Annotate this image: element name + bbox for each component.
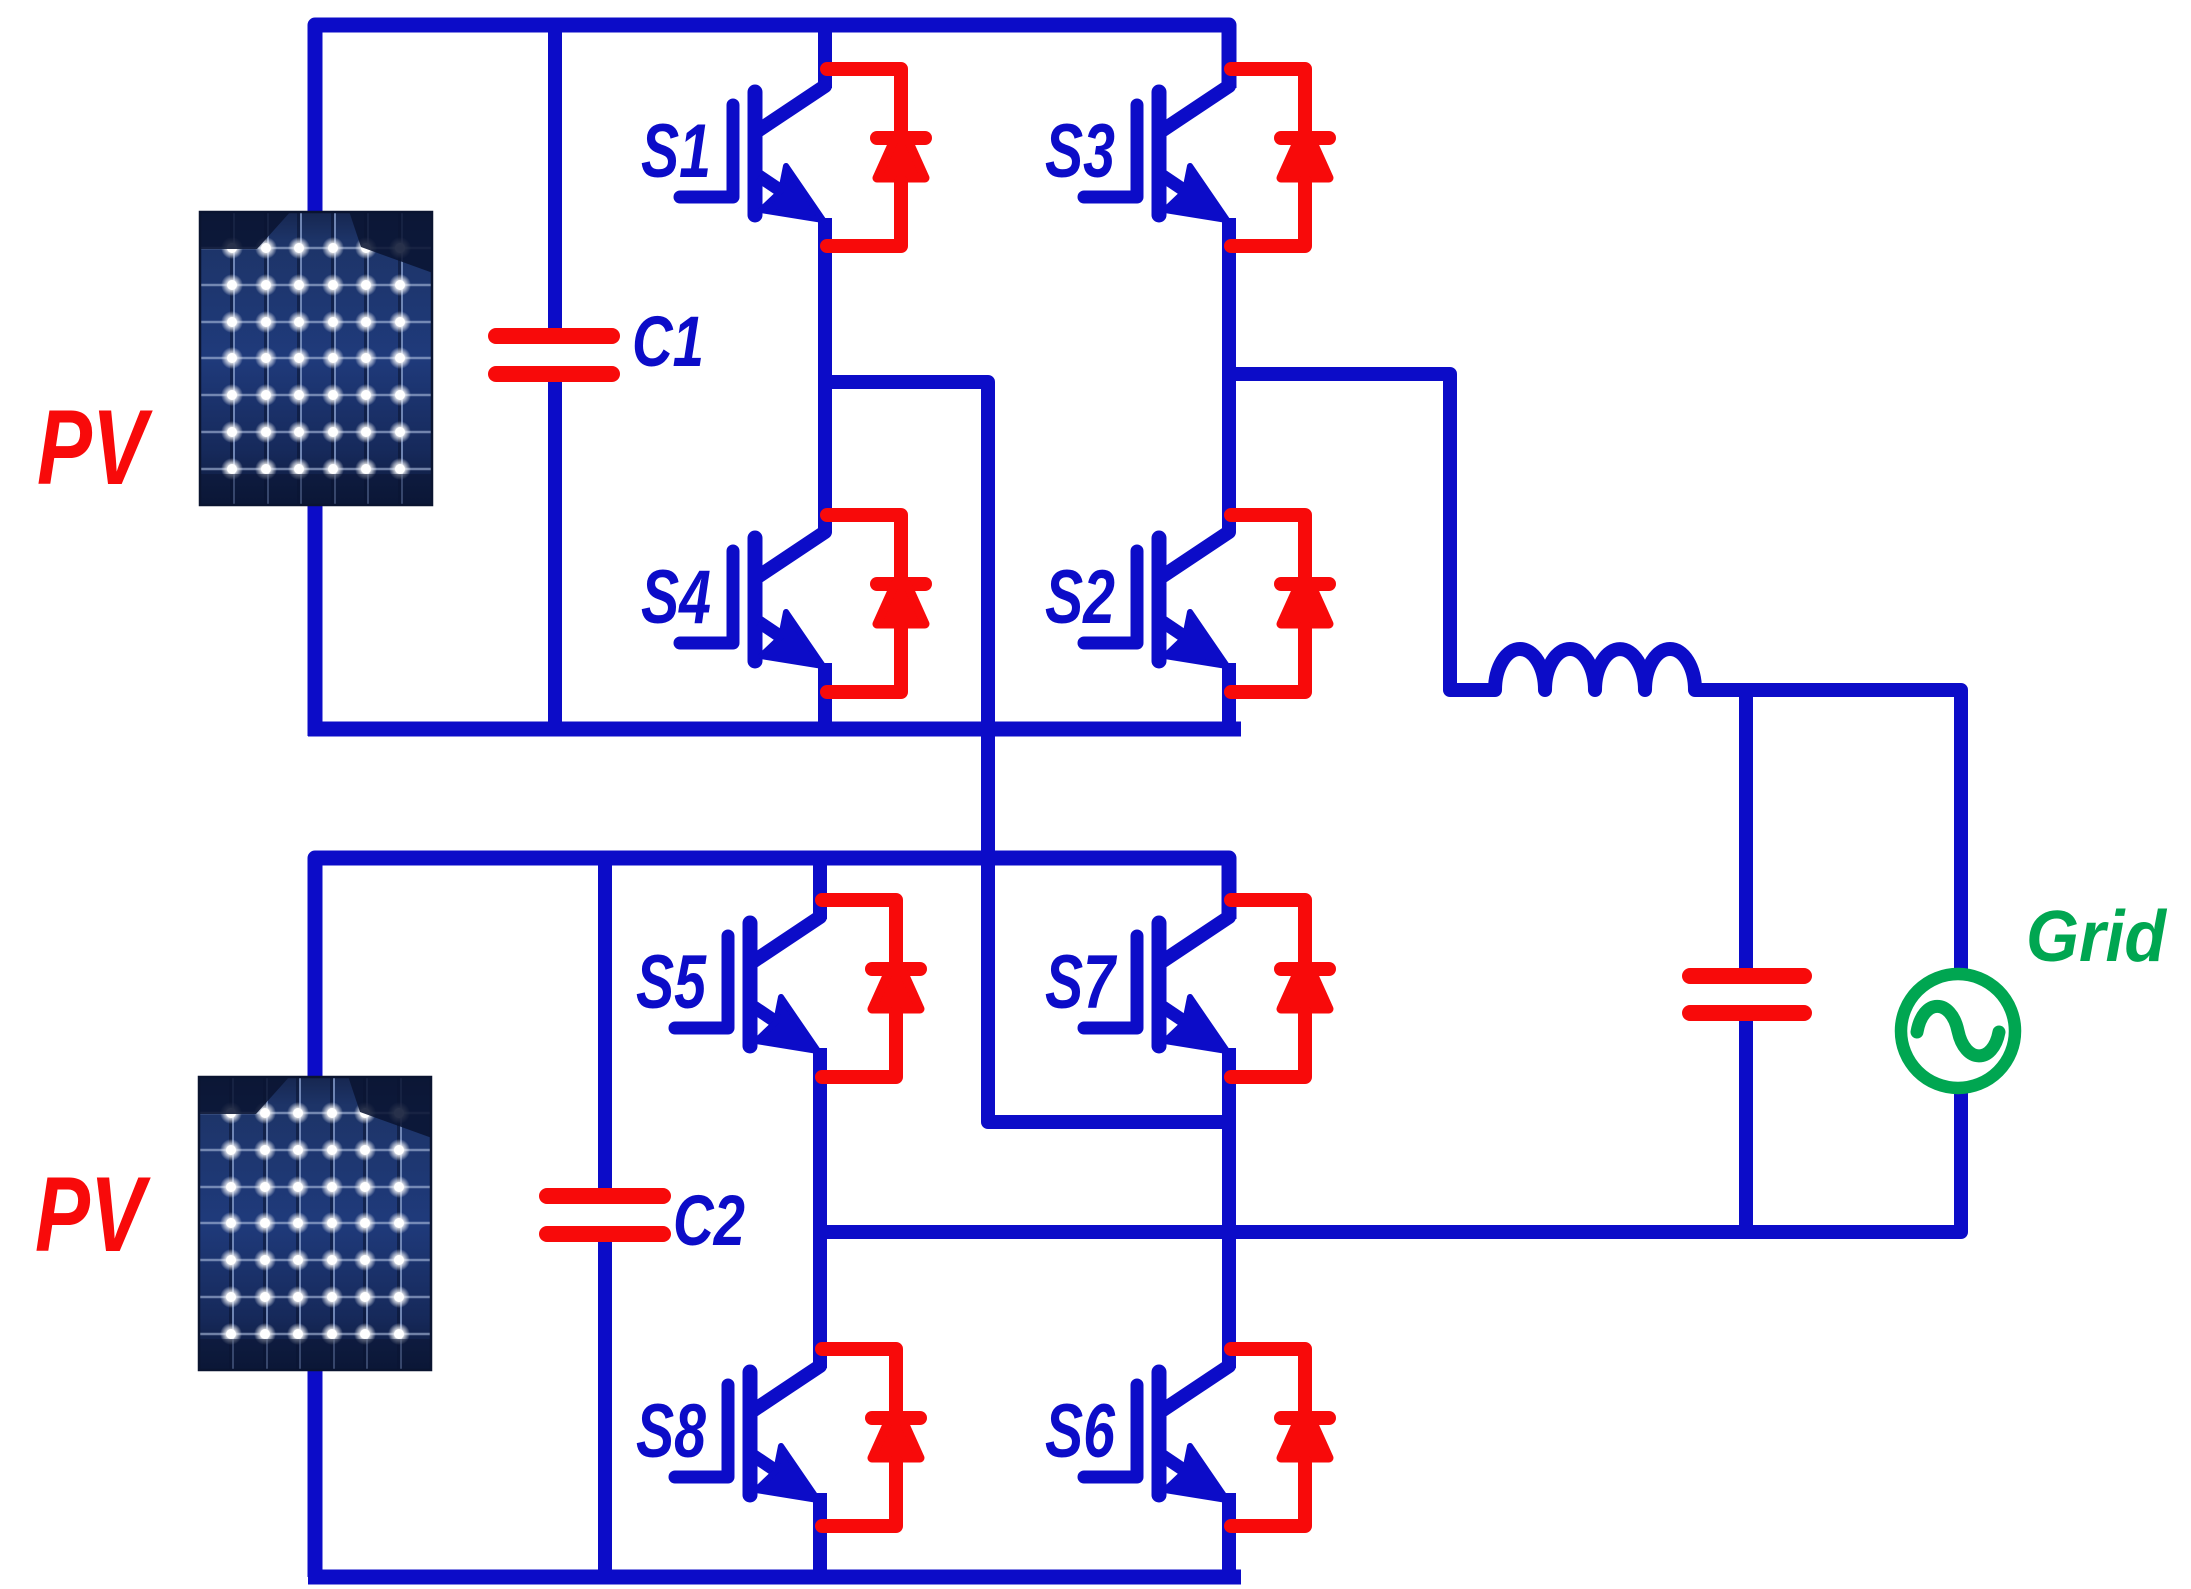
PV module 1 (photo style panel) (199, 211, 433, 506)
transistor S8 (IGBT) (675, 1366, 820, 1500)
transistor S6 (IGBT) (1084, 1366, 1229, 1500)
capacitor C1 (496, 336, 612, 374)
wire: S6 emitter to bottom rail (1222, 1493, 1236, 1581)
wire: S3 emitter to S2 collector (node B1 vertical) (1222, 218, 1236, 532)
capacitor C2 (547, 1196, 663, 1234)
diode D4 (antiparallel of S4) (827, 515, 925, 692)
wire: S8 emitter to bottom rail (813, 1493, 827, 1581)
AC source (grid) circle (1901, 974, 2015, 1088)
svg-text:S8: S8 (636, 1389, 707, 1474)
wire: S5 emitter to S8 collector (node A2 vertical) (813, 1048, 827, 1368)
wire: S2 emitter to bottom rail (1222, 663, 1236, 733)
svg-text:S6: S6 (1045, 1389, 1116, 1474)
svg-text:C2: C2 (673, 1182, 745, 1261)
svg-text:PV: PV (35, 1154, 151, 1274)
transistor S1 (IGBT) (680, 86, 825, 220)
svg-text:S2: S2 (1045, 555, 1115, 640)
transistor S4 (IGBT) (680, 532, 825, 666)
diode D5 (antiparallel of S5) (822, 900, 920, 1077)
wire: node A1 link down to bridge2 (S7 midpoint) (825, 382, 1229, 1122)
wire: C2 column lower (598, 1238, 612, 1577)
wire: C2 column upper (598, 858, 612, 1192)
AC source sine wave (1917, 1006, 1999, 1056)
wire: node A2 return wire to AC source bottom (820, 1086, 1961, 1232)
wire: bridge1 bottom rail (308, 722, 1241, 737)
diode D1 (antiparallel of S1) (827, 69, 925, 246)
diode D6 (antiparallel of S6) (1231, 1349, 1329, 1526)
svg-text:Grid: Grid (2026, 897, 2168, 977)
svg-text:S5: S5 (636, 940, 707, 1025)
diode D7 (antiparallel of S7) (1231, 900, 1329, 1077)
PV module 2 (photo style panel) (198, 1076, 432, 1371)
wire: S1 leg from top rail (818, 25, 832, 88)
svg-text:S4: S4 (641, 555, 711, 640)
wire: S7 emitter to S6 collector (node B2 vertical) (1222, 1048, 1236, 1368)
wire: filter capacitor lower leg (1739, 1018, 1753, 1232)
svg-text:S1: S1 (641, 109, 711, 194)
transistor S5 (IGBT) (675, 917, 820, 1051)
diode D3 (antiparallel of S3) (1231, 69, 1329, 246)
inductor L (1495, 649, 1695, 690)
wire: S1 emitter to S4 collector (node A1 vertical) (818, 218, 832, 532)
wire: C1 column lower (548, 378, 562, 729)
svg-text:PV: PV (37, 387, 153, 507)
wire: bridge1 left column + top rail + S3 collector stub (315, 25, 1229, 736)
wire: S4 emitter to bottom rail (818, 663, 832, 733)
wire: bridge2 bottom rail (308, 1570, 1241, 1585)
wire: C1 column upper (548, 25, 562, 332)
transistor S7 (IGBT) (1084, 917, 1229, 1051)
diode D2 (antiparallel of S2) (1231, 515, 1329, 692)
svg-text:S3: S3 (1045, 109, 1115, 194)
filter capacitor (1690, 976, 1804, 1013)
svg-text:C1: C1 (632, 303, 704, 382)
wire: bridge2 left column + top rail + S7 collector stub (315, 858, 1229, 1577)
transistor S2 (IGBT) (1084, 532, 1229, 666)
wire: S5 leg from bridge2 top rail (813, 858, 827, 919)
svg-text:S7: S7 (1045, 940, 1118, 1025)
diode D8 (antiparallel of S8) (822, 1349, 920, 1526)
transistor S3 (IGBT) (1084, 86, 1229, 220)
wire: node B1 to inductor and AC source top (1229, 374, 1961, 978)
wire: filter capacitor upper leg (1739, 690, 1753, 971)
